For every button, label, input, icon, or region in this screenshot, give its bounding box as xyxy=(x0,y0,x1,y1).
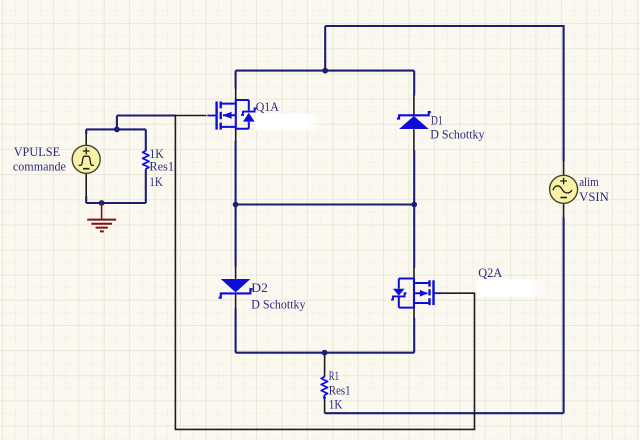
junction node mid left xyxy=(233,202,239,208)
black lead R1 bottom xyxy=(324,399,326,413)
junction node supply top xyxy=(322,68,328,74)
svg-text:Res1: Res1 xyxy=(329,384,351,398)
wire right rail above D1 xyxy=(413,71,415,96)
svg-text:D2: D2 xyxy=(251,281,268,295)
white box near Q1A xyxy=(256,114,306,130)
R1 bottom pin dot xyxy=(323,396,326,399)
Q2A body diode xyxy=(393,289,405,296)
diode D2 (D Schottky) xyxy=(221,279,251,292)
pin Q2A source xyxy=(413,308,415,319)
svg-text:D Schottky: D Schottky xyxy=(430,128,485,142)
wire resistor Res1 top lead xyxy=(145,129,147,150)
ground symbol xyxy=(87,203,116,231)
wire left rail Q1A to mid node xyxy=(235,141,237,205)
svg-text:alim: alim xyxy=(579,175,599,189)
pin D1 anode xyxy=(413,129,415,150)
pin VSIN plus xyxy=(563,161,565,176)
wire right rail Q2A to bottom node xyxy=(413,318,415,353)
resistor R1 load xyxy=(321,375,327,396)
pin VPULSE plus xyxy=(85,134,87,146)
wire VPULSE top loop horizontal xyxy=(86,128,146,130)
wire top horizontal VSIN-supply xyxy=(325,25,563,27)
junction node mid right xyxy=(411,202,417,208)
wire gate wire VPULSE to black line xyxy=(117,114,176,116)
resistor Res1 1K divider xyxy=(143,149,149,170)
svg-text:R1: R1 xyxy=(329,369,339,383)
svg-text:Res1: Res1 xyxy=(149,160,174,174)
junction node R1 top xyxy=(322,350,328,356)
svg-text:commande: commande xyxy=(13,160,66,174)
black gate routing line xyxy=(175,116,474,430)
pin D1 cathode xyxy=(413,95,415,115)
black lead R1 top xyxy=(324,353,326,376)
wire riser to gate wire xyxy=(116,116,118,130)
transistor Q1A N-MOSFET xyxy=(207,100,249,130)
wire left rail mid to D2 xyxy=(235,205,237,267)
pin Q1A source xyxy=(235,129,237,141)
diode D1 (D Schottky) xyxy=(399,116,429,129)
voltage source VSIN xyxy=(550,175,578,203)
svg-text:D Schottky: D Schottky xyxy=(251,298,306,312)
svg-text:Q1A: Q1A xyxy=(256,100,279,114)
pin VSIN minus xyxy=(563,204,565,219)
wire middle bridge horizontal xyxy=(236,203,415,205)
wire right rail D1 to mid node xyxy=(413,150,415,205)
wire left rail D2 to bottom node xyxy=(235,309,237,353)
svg-text:VSIN: VSIN xyxy=(579,190,609,204)
transistor Q2A N-MOSFET mirrored xyxy=(399,278,441,308)
svg-text:D1: D1 xyxy=(431,113,443,127)
svg-text:Q2A: Q2A xyxy=(478,266,502,280)
white box near Q2A xyxy=(477,280,531,297)
Q1A body diode xyxy=(243,113,255,122)
pin Q1A drain xyxy=(235,88,237,100)
junction node ground xyxy=(99,200,105,206)
pin D2 cathode xyxy=(235,294,237,309)
wire VPULSE bottom lead wire xyxy=(85,197,87,204)
voltage source VPULSE xyxy=(72,145,100,173)
wire left rail above Q1A xyxy=(235,71,237,89)
wire riser to top junction xyxy=(324,26,326,71)
pin D2 anode xyxy=(235,266,237,279)
wire R1 bottom to VSIN return xyxy=(325,412,564,414)
svg-text:1K: 1K xyxy=(149,175,162,189)
wire bottom bridge horizontal xyxy=(236,352,415,354)
wire right rail mid to Q2A xyxy=(413,205,415,268)
wire VPULSE bottom loop horizontal xyxy=(86,202,146,204)
pin Q2A drain xyxy=(413,267,415,279)
svg-text:VPULSE: VPULSE xyxy=(14,145,61,159)
pin VPULSE minus xyxy=(85,173,87,197)
wire VPULSE top lead wire xyxy=(85,129,87,134)
svg-text:1K: 1K xyxy=(329,397,343,411)
wire VSIN bottom vertical xyxy=(563,218,565,414)
wire right vertical to VSIN top xyxy=(563,25,565,161)
wire resistor Res1 bottom lead xyxy=(145,170,147,203)
junction node gate/divider xyxy=(114,126,120,132)
wire upper bridge horizontal Q1A/D1 xyxy=(236,70,415,72)
